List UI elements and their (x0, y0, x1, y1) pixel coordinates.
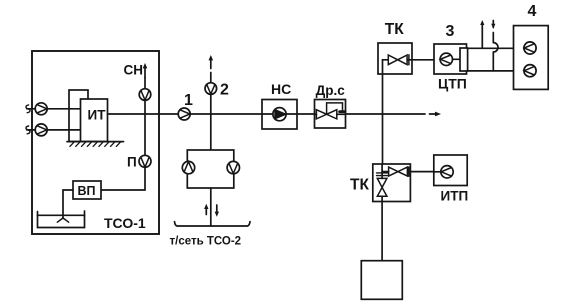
wire P to VP (101, 167, 145, 190)
ground line (67, 141, 124, 143)
arrow up CH (143, 63, 148, 78)
riser up (382, 74, 384, 114)
pump ITP (441, 166, 453, 178)
boiler rear section (69, 90, 88, 142)
wire NC internal (262, 113, 297, 115)
arrowhead down return (491, 24, 495, 29)
svg-text:ВП: ВП (78, 184, 96, 198)
pump 1 (178, 108, 190, 120)
flow arrow down (215, 205, 219, 217)
pump P1a (35, 103, 47, 115)
building box bottom (361, 261, 402, 300)
svg-text:Др.с: Др.с (316, 83, 346, 98)
wire CH to main and P (144, 100, 146, 155)
vaporizer VP (73, 181, 101, 199)
exchanger pump right (227, 161, 239, 173)
wire Dr.s internal (315, 113, 346, 115)
heat exchanger TCO-2 (187, 150, 234, 188)
pump 2 (205, 83, 217, 95)
flange TK top (408, 55, 410, 65)
stub to horizontal valve (382, 171, 389, 173)
svg-text:2: 2 (220, 82, 229, 99)
main line (108, 113, 426, 115)
wire TK bottom to building (381, 196, 383, 260)
wire TK to station 3 (407, 59, 434, 61)
arrow up supply (480, 20, 484, 48)
wire stub to pump P1b (27, 129, 35, 131)
svg-text:ТК: ТК (385, 21, 404, 38)
wire CH down (144, 78, 146, 90)
svg-text:ТК: ТК (350, 177, 369, 194)
svg-text:ЦТП: ЦТП (438, 76, 467, 92)
valve box TK top (378, 43, 412, 74)
wire ITP internal (434, 171, 441, 173)
strainer bars (377, 173, 388, 176)
svg-text:4: 4 (528, 3, 537, 20)
pump P (139, 155, 151, 167)
wire P1b to boiler (47, 129, 81, 131)
break squiggle bottom feed (26, 126, 30, 134)
horizontal valve TK bottom (389, 167, 408, 176)
return drop with jump (493, 21, 498, 71)
wire 2 to exchanger (210, 94, 212, 150)
actuator head Dr.s (338, 110, 346, 113)
supply wire to 4 (467, 47, 513, 49)
wire VP to tank (63, 190, 73, 218)
pump NC (273, 108, 286, 121)
substation ITP box (434, 155, 467, 186)
flow arrow up (204, 204, 208, 215)
actuator Dr.s (327, 103, 343, 114)
valve TK top (388, 55, 407, 65)
wire TK bottom internal top (381, 164, 383, 178)
return wire to 4 (467, 70, 513, 72)
wire 2 upper dash (210, 73, 212, 84)
riser down (382, 114, 384, 164)
pump P1b (35, 124, 47, 136)
wire to ITP (407, 171, 441, 173)
bracket t-set (175, 222, 251, 226)
wire TK top internal (383, 60, 389, 74)
boiler IT (81, 99, 108, 142)
svg-text:СН: СН (124, 63, 144, 78)
svg-text:НС: НС (271, 81, 291, 97)
svg-text:3: 3 (446, 23, 455, 40)
tank (38, 211, 85, 228)
pump 3 (440, 53, 452, 65)
wire stub to pump P1a (27, 108, 35, 110)
wire pump3 to header (453, 58, 461, 60)
svg-text:1: 1 (184, 92, 193, 109)
building 4 box (514, 26, 549, 90)
exchanger pump left (182, 161, 194, 173)
break squiggle top feed (26, 105, 30, 113)
enclosure TCO-1 (32, 51, 159, 234)
throttle Dr.s box (315, 100, 346, 129)
svg-text:ТСО-1: ТСО-1 (104, 215, 146, 231)
pump station NC box (262, 100, 297, 130)
vertical valve TK bottom (377, 178, 387, 196)
drain crows foot (57, 218, 68, 222)
flange TK bottom (408, 167, 410, 176)
main line end arrow (430, 112, 442, 117)
ground hatching (70, 142, 121, 147)
tank water level (38, 214, 85, 216)
valve box TK bottom (373, 164, 411, 202)
wire exchanger down (210, 188, 212, 226)
header rect (460, 48, 468, 71)
pump 4a (524, 42, 536, 54)
arrow up 2 (209, 55, 214, 69)
pump 4b (524, 65, 536, 77)
svg-text:П: П (127, 155, 137, 170)
wire P1a to boiler (47, 108, 81, 110)
pump CH (139, 89, 151, 101)
svg-text:ИТП: ИТП (441, 189, 469, 204)
station 3 box (434, 44, 467, 74)
valve Dr.s (316, 110, 336, 119)
svg-text:т/сеть ТСО-2: т/сеть ТСО-2 (170, 236, 242, 248)
svg-text:ИТ: ИТ (88, 108, 107, 123)
